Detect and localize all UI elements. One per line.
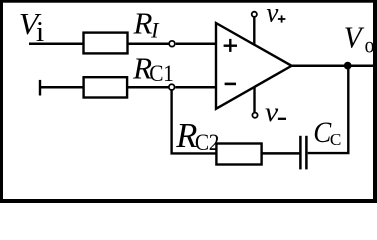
v- power pin wire [253, 87, 255, 113]
wire node to op-amp + input [176, 42, 216, 45]
label RC1 [132, 51, 173, 86]
svg-text:C1: C1 [149, 60, 173, 86]
label v+ [266, 0, 285, 28]
label RI [133, 6, 161, 43]
resistor RC2 [216, 144, 261, 165]
wire RC2 to CC [261, 152, 300, 155]
op-amp - input sign [225, 83, 236, 86]
svg-text:v: v [265, 98, 279, 127]
node open circle (inverting input) [169, 84, 175, 90]
label RC2 [175, 117, 219, 155]
wire RI to node [128, 42, 170, 45]
op-amp U1 [216, 23, 292, 109]
node Vo label [344, 20, 375, 58]
junction dot output node [344, 62, 352, 70]
svg-text:R: R [133, 6, 153, 41]
wire CC up to output node [308, 66, 349, 153]
capacitor CC [300, 136, 306, 170]
wire op-amp output to right border [292, 64, 376, 67]
svg-text:C: C [330, 130, 341, 149]
op-amp + input sign [224, 39, 237, 52]
wire Vi to RI [29, 42, 84, 45]
resistor RC1 [84, 77, 128, 97]
terminal bar (RC1 input) [39, 80, 41, 96]
node Vi label [19, 6, 44, 47]
v+ power pin circle [252, 12, 257, 17]
wire node to op-amp - input [175, 86, 216, 89]
wire feedback down and right to RC2 [172, 90, 217, 153]
node open circle (noninverting input) [169, 41, 175, 47]
svg-text:R: R [175, 117, 197, 155]
wire RC1 to node [127, 86, 169, 89]
label v- [265, 98, 286, 127]
label CC [313, 117, 341, 150]
resistor RI [84, 33, 128, 54]
svg-text:v: v [266, 0, 278, 28]
wire terminal to RC1 [40, 86, 84, 89]
v+ power pin wire [253, 18, 255, 45]
svg-text:o: o [365, 32, 375, 58]
v- power pin circle [252, 113, 257, 118]
